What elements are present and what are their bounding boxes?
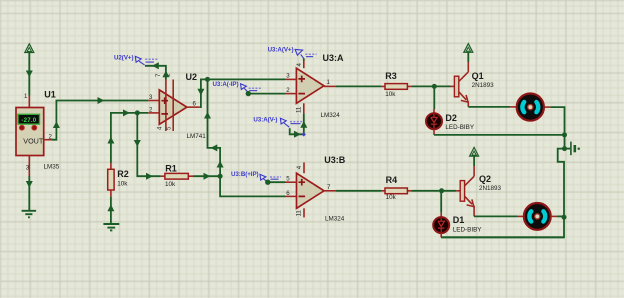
- wire M2 right to rail: [557, 215, 564, 217]
- svg-text:2: 2: [286, 87, 290, 94]
- wire junction down to D2: [433, 86, 435, 109]
- svg-text:U2(V+): U2(V+): [114, 55, 133, 62]
- svg-text:3: 3: [286, 73, 290, 80]
- wire R1 right to feedback node: [193, 175, 220, 177]
- U2 pin2 stub: [148, 112, 159, 114]
- U3:A pin2 stub: [285, 93, 296, 95]
- wire P2 to Q1 collector: [467, 52, 469, 62]
- wire R2 bottom to ground: [110, 197, 112, 224]
- svg-text:U1: U1: [44, 89, 56, 99]
- op-amp U3:B: [297, 173, 325, 208]
- wire U2(V+) to U2 pin7: [145, 66, 166, 80]
- wire D2 bottom to right rail: [434, 134, 565, 136]
- U3:B pin7 stub: [324, 190, 336, 192]
- node terminal dot -IP: [246, 91, 251, 96]
- ground GND2: [103, 224, 119, 230]
- pin 1 stub U1: [28, 96, 30, 109]
- svg-text:U3:A(V+): U3:A(V+): [268, 47, 294, 54]
- ground GND1: [22, 211, 36, 218]
- node D2 row junction: [562, 132, 567, 137]
- wire M2 junction down to bottom row: [441, 217, 564, 237]
- wire U3:B pin7 to R4: [336, 190, 381, 192]
- U3:A pin11 stub: [303, 103, 305, 113]
- power terminal P2 (above Q1): [464, 44, 473, 53]
- wire U3:A(V+) to pin4: [303, 58, 305, 60]
- wire U2 pin6 up to output node: [200, 79, 208, 107]
- svg-text:Q2: Q2: [479, 174, 491, 184]
- U3:B pin5 stub: [285, 181, 297, 183]
- resistor R4: [381, 188, 411, 194]
- node U2 pin2 junction: [135, 110, 140, 115]
- power terminal P3 (above Q2): [470, 147, 479, 156]
- svg-text:2N1893: 2N1893: [479, 185, 502, 192]
- svg-text:U3:B(+IP): U3:B(+IP): [231, 171, 259, 178]
- wire junction down to R1 left: [137, 113, 160, 176]
- node M2 right junction: [562, 215, 567, 220]
- wire left rail to U1 pin1: [28, 52, 30, 95]
- wire +IP terminal to U3:B pin5: [268, 181, 285, 183]
- svg-text:U3:A: U3:A: [323, 53, 345, 63]
- U3:A pin1 stub: [324, 85, 336, 87]
- svg-text:LM35: LM35: [44, 164, 60, 171]
- wire feedback node down to U3:B pin6: [220, 176, 285, 196]
- svg-text:U3:A(-IP): U3:A(-IP): [213, 81, 239, 88]
- svg-text:R2: R2: [117, 169, 129, 179]
- pin 2 stub U1: [44, 139, 52, 141]
- power terminal P1 (left rail top): [25, 44, 34, 53]
- node blue marker pin11 corner: [302, 132, 306, 136]
- resistor R1: [161, 173, 193, 179]
- svg-text:5: 5: [286, 176, 290, 183]
- U2 pin3 stub: [148, 100, 159, 102]
- node battery junction: [562, 146, 567, 151]
- wire junction down to D1: [440, 191, 442, 213]
- svg-text:R1: R1: [165, 164, 177, 174]
- battery BAT: [565, 142, 575, 156]
- wire output node down to feedback node (S bend): [208, 79, 221, 176]
- wire D1 bottom row: [441, 236, 564, 238]
- wire R3 to Q1 base: [411, 85, 450, 87]
- node feedback junction: [218, 174, 223, 179]
- wire U3:A(V-) to pin11: [290, 114, 304, 135]
- wire R2 top to U2 pin2: [111, 113, 148, 163]
- svg-text:4: 4: [296, 63, 303, 67]
- wire battery junction jog down to motor M2 right: [558, 149, 565, 218]
- wire M1 right to right rail: [550, 107, 564, 149]
- U2 pin6 stub: [187, 106, 200, 108]
- node Q2 base junction: [439, 188, 444, 193]
- terminal U3:B(+IP): [231, 171, 281, 181]
- svg-text:2N1893: 2N1893: [472, 82, 495, 89]
- U3:B pin6 stub: [285, 195, 297, 197]
- svg-text:6: 6: [286, 190, 290, 197]
- svg-text:D1: D1: [453, 215, 465, 225]
- wire U1 pin3 to ground: [28, 176, 30, 211]
- U3:B pin4 stub: [303, 162, 305, 173]
- wire P3 to Q2 collector: [473, 156, 475, 166]
- svg-text:LM324: LM324: [325, 216, 345, 223]
- U3:B pin11 stub: [303, 208, 305, 217]
- svg-text:LM324: LM324: [321, 112, 341, 119]
- svg-text:LM741: LM741: [187, 133, 207, 140]
- wire R4 to Q2 base: [411, 190, 456, 192]
- wire Q1 emitter to motor M1: [468, 106, 510, 108]
- op-amp U3:A: [296, 68, 324, 103]
- svg-text:VOUT: VOUT: [23, 136, 44, 145]
- wire U3:A pin1 to R3: [336, 85, 381, 87]
- svg-text:10k: 10k: [165, 181, 176, 188]
- U3:A pin3 stub: [285, 78, 296, 80]
- svg-text:Q1: Q1: [472, 71, 484, 81]
- svg-text:3: 3: [26, 164, 30, 171]
- node Q1 base junction: [432, 84, 437, 89]
- svg-text:LED-BIBY: LED-BIBY: [445, 124, 474, 131]
- svg-text:D2: D2: [445, 113, 457, 123]
- svg-text:R4: R4: [386, 175, 398, 185]
- terminal U3:A(-IP): [213, 81, 261, 92]
- wire U1 pin2 to U2 pin3: [51, 101, 148, 140]
- LED D1: [433, 213, 449, 238]
- U3:A pin4 stub: [303, 61, 305, 69]
- svg-text:-27.0: -27.0: [21, 117, 36, 124]
- svg-text:10k: 10k: [117, 180, 128, 187]
- svg-text:U2: U2: [186, 72, 198, 82]
- svg-text:U3:A(V-): U3:A(V-): [253, 117, 277, 124]
- svg-text:11: 11: [296, 210, 303, 217]
- resistor R2: [108, 163, 114, 197]
- pin 3 stub U1: [28, 156, 30, 177]
- LED D2: [426, 109, 442, 135]
- motor M2: [517, 203, 557, 230]
- node terminal dot +IP: [265, 180, 270, 185]
- terminal U2(V+): [114, 55, 158, 65]
- motor M1: [510, 94, 550, 121]
- wire output node to U3:A pin3: [208, 78, 286, 80]
- node U2 output junction: [205, 77, 210, 82]
- svg-text:U3:B: U3:B: [324, 155, 346, 165]
- resistor R3: [381, 84, 411, 90]
- transistor Q2: [456, 166, 474, 216]
- op-amp U2: [159, 80, 187, 132]
- LM35 body U1: [16, 108, 44, 156]
- svg-text:11: 11: [296, 106, 303, 113]
- terminal U3:A(V+): [268, 47, 317, 59]
- svg-text:R3: R3: [385, 71, 397, 81]
- wire Q2 emitter to motor M2: [474, 215, 517, 217]
- svg-text:10k: 10k: [386, 194, 397, 201]
- svg-text:10k: 10k: [385, 91, 396, 98]
- terminal U3:A(V-): [253, 117, 302, 128]
- svg-text:LED-BIBY: LED-BIBY: [453, 226, 482, 233]
- wire -IP terminal to U3:A pin2: [248, 93, 285, 95]
- transistor Q1: [451, 62, 469, 107]
